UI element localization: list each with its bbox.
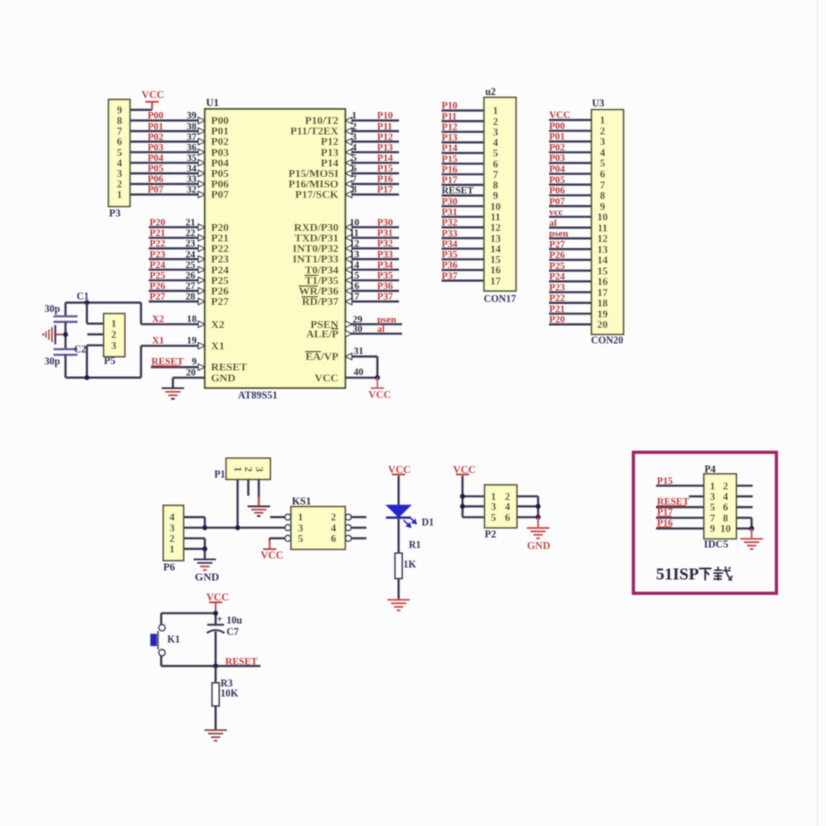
net label RESET (bottom): [225, 656, 258, 667]
power VCC at U1 pin40: [368, 378, 391, 401]
svg-text:P11: P11: [377, 121, 392, 132]
svg-text:P36: P36: [442, 260, 458, 271]
svg-text:4: 4: [169, 513, 175, 524]
svg-text:2: 2: [169, 534, 174, 545]
svg-text:P14: P14: [442, 143, 458, 154]
svg-text:3: 3: [600, 137, 605, 148]
IC U1 AT89S51 body: [205, 98, 345, 402]
svg-text:15: 15: [597, 266, 608, 277]
net label vcc (U3): [549, 207, 563, 218]
wire P2 pin3: [463, 505, 485, 507]
ground at P4: [740, 529, 762, 550]
wire U3 pin15 net P25: [549, 270, 592, 272]
svg-text:KS1: KS1: [292, 497, 311, 508]
wire P5 pin3: [87, 345, 104, 377]
ground at R1: [387, 600, 409, 611]
net label psen: [377, 314, 397, 325]
svg-text:8: 8: [352, 185, 357, 196]
net label P31: [377, 228, 393, 239]
svg-text:6: 6: [723, 503, 728, 514]
svg-text:2: 2: [111, 330, 116, 341]
net label P05 (U3): [549, 175, 565, 186]
svg-text:4: 4: [600, 148, 606, 159]
wire u2 pin11 net P31: [442, 216, 484, 218]
net label P27: [150, 292, 166, 303]
wire net X2: [141, 321, 205, 327]
wire net P01 (P3 to U1): [130, 128, 205, 134]
svg-text:P16: P16: [442, 165, 458, 176]
ground at P6: [194, 559, 220, 583]
net label P04 (U3): [549, 164, 565, 175]
svg-text:P1: P1: [214, 469, 225, 480]
svg-text:23: 23: [186, 239, 196, 250]
title 51ISP download: [656, 565, 732, 584]
svg-text:8: 8: [117, 116, 122, 127]
wire net X1: [141, 343, 205, 349]
svg-text:13: 13: [490, 234, 501, 245]
svg-text:34: 34: [187, 164, 197, 175]
net label P36 (u2): [442, 260, 458, 271]
wire P5 pin2 stub: [87, 333, 104, 335]
svg-text:17: 17: [597, 288, 608, 299]
net label P16: [377, 174, 393, 185]
svg-text:6: 6: [600, 170, 605, 181]
wire net P25 (to U1): [149, 277, 205, 283]
svg-text:16: 16: [490, 266, 501, 277]
pin number 21: [186, 217, 196, 228]
net label P20: [150, 217, 166, 228]
svg-text:P05: P05: [148, 164, 164, 175]
pin number 25: [186, 260, 196, 271]
svg-text:2: 2: [331, 513, 336, 524]
wire net P03 (P3 to U1): [130, 149, 205, 155]
svg-text:X1: X1: [211, 340, 224, 352]
wire u2 pin7 net P16: [442, 173, 484, 175]
svg-text:2: 2: [600, 127, 605, 138]
svg-text:P17: P17: [377, 185, 393, 196]
svg-text:P22: P22: [549, 293, 565, 304]
net label P07: [148, 185, 164, 196]
wire net P02 (P3 to U1): [130, 139, 205, 145]
svg-text:P25: P25: [549, 261, 565, 272]
net label P13 (u2): [442, 133, 458, 144]
wire to P5 pin1: [87, 303, 104, 324]
net label RESET (P4): [657, 497, 690, 508]
svg-text:10: 10: [490, 202, 501, 213]
pin number 36: [187, 142, 197, 153]
svg-text:P13: P13: [442, 133, 458, 144]
svg-text:P27: P27: [211, 296, 229, 308]
svg-text:10K: 10K: [221, 688, 239, 699]
pin number 3: [352, 132, 357, 143]
svg-text:16: 16: [350, 281, 360, 292]
wire net P07 (P3 to U1): [130, 191, 205, 197]
wire KS1 pin4: [351, 527, 366, 529]
svg-text:8: 8: [600, 191, 605, 202]
svg-text:6: 6: [352, 164, 357, 175]
wire KS1 pin1 stub: [270, 516, 285, 518]
net label P24: [150, 260, 166, 271]
wire P4 pin6: [736, 506, 752, 508]
svg-text:VCC: VCC: [368, 390, 391, 401]
wire P1 pin1 down: [237, 479, 239, 527]
junction C7 top: [213, 611, 218, 616]
net label RESET: [151, 357, 184, 368]
svg-text:P30: P30: [377, 217, 393, 228]
wire GND pin20: [173, 368, 205, 389]
svg-text:P02: P02: [549, 143, 565, 154]
wire U3 pin3 net P01: [549, 140, 592, 142]
svg-text:P4: P4: [705, 464, 716, 475]
pin number 6: [352, 164, 357, 175]
net label P35 (u2): [442, 250, 458, 261]
svg-text:1: 1: [352, 111, 357, 122]
svg-text:D1: D1: [422, 517, 434, 528]
power VCC at KS1: [261, 540, 284, 562]
net label P25: [150, 271, 166, 282]
net label P02: [148, 132, 164, 143]
svg-text:EA/VP: EA/VP: [306, 351, 339, 363]
wire u2 pin2 net P11: [442, 120, 484, 122]
net label P35: [377, 271, 393, 282]
svg-text:P2: P2: [485, 530, 497, 541]
svg-text:U1: U1: [206, 98, 219, 109]
svg-text:5: 5: [117, 148, 122, 159]
svg-text:P15: P15: [657, 476, 673, 487]
net label RESET (u2): [442, 186, 475, 197]
svg-text:10: 10: [597, 213, 608, 224]
junction P2 pin1: [460, 494, 465, 499]
wire net P36 (U1 right): [345, 288, 399, 294]
wire net P10 (U1 right): [345, 117, 399, 123]
capacitor C1: [45, 291, 89, 322]
wire U3 pin4 net P02: [549, 151, 592, 153]
wire u2 pin3 net P12: [442, 131, 484, 133]
wire P6 pin3 main net: [184, 527, 285, 529]
wire EA/VP pin31 to VCC: [345, 346, 377, 378]
svg-text:3: 3: [352, 132, 357, 143]
wire VCC pin40: [345, 367, 377, 378]
wire U3 pin1 net VCC: [549, 119, 592, 121]
svg-text:IDC5: IDC5: [704, 539, 729, 550]
svg-text:21: 21: [186, 217, 196, 228]
wire net P37 (U1 right): [345, 298, 399, 304]
wire u2 pin15 net P35: [442, 258, 484, 260]
wire U3 pin5 net P03: [549, 162, 592, 164]
wire U3 pin6 net P04: [549, 173, 592, 175]
wire P4 pin8 to ground: [736, 518, 751, 529]
capacitor C7 polarized: [207, 615, 243, 639]
svg-text:P30: P30: [442, 196, 458, 207]
wire net psen: [345, 321, 402, 327]
wire u2 pin4 net P13: [442, 141, 484, 143]
pin number 1: [352, 111, 357, 122]
pin number 17: [350, 292, 360, 303]
svg-text:P07: P07: [549, 196, 565, 207]
switch block KS1: [285, 497, 351, 550]
svg-text:P01: P01: [549, 132, 565, 143]
svg-text:P00: P00: [148, 111, 164, 122]
pin number 9: [192, 357, 197, 368]
wire net P00 (P3 to U1): [130, 117, 205, 123]
wire net P15 (U1 right): [345, 170, 399, 176]
svg-text:P6: P6: [163, 562, 175, 573]
svg-text:17: 17: [490, 276, 501, 287]
wire net P30 (U1 right): [345, 224, 399, 230]
svg-text:10: 10: [350, 217, 360, 228]
junction P6 pin2/pin1: [202, 546, 207, 551]
svg-text:P03: P03: [549, 153, 565, 164]
svg-text:3: 3: [491, 502, 496, 513]
net label P17: [377, 185, 393, 196]
svg-text:5: 5: [491, 513, 496, 524]
wire net P24 (to U1): [149, 267, 205, 273]
net label P34 (u2): [442, 239, 458, 250]
wire net P21 (to U1): [149, 235, 205, 241]
svg-text:36: 36: [187, 142, 197, 153]
svg-text:al: al: [377, 324, 385, 335]
net label P12 (u2): [442, 122, 458, 133]
svg-text:8: 8: [723, 513, 728, 524]
wire U3 pin9 net P07: [549, 205, 592, 207]
junction pin40/pin31: [375, 375, 380, 380]
wire P3 pin9 to VCC: [130, 109, 152, 111]
net label P07 (U3): [549, 196, 565, 207]
svg-text:17: 17: [350, 292, 360, 303]
svg-text:VCC: VCC: [142, 90, 165, 101]
pin number 22: [186, 228, 196, 239]
resistor R1: [395, 540, 421, 579]
net label P33: [377, 249, 393, 260]
wire net RESET (U1): [151, 364, 205, 370]
svg-text:C7: C7: [227, 627, 239, 638]
svg-text:6: 6: [331, 534, 336, 545]
junction P4 pin10/pin8: [749, 526, 754, 531]
net label P23 (U3): [549, 282, 565, 293]
svg-text:R1: R1: [409, 540, 421, 551]
svg-text:P17/SCK: P17/SCK: [295, 189, 339, 201]
svg-text:4: 4: [117, 158, 123, 169]
U1 left pin names: [211, 115, 248, 384]
svg-text:11: 11: [491, 213, 501, 224]
wire u2 pin10 net P30: [442, 205, 484, 207]
svg-text:CON17: CON17: [484, 294, 516, 305]
svg-text:20: 20: [186, 368, 196, 379]
svg-text:5: 5: [710, 503, 715, 514]
svg-text:P04: P04: [549, 164, 565, 175]
wire u2 pin14 net P34: [442, 248, 484, 250]
power VCC at D1: [388, 465, 411, 481]
svg-text:1: 1: [111, 319, 116, 330]
svg-text:vcc: vcc: [549, 207, 563, 218]
net label P27 (U3): [549, 239, 565, 250]
pin number 4: [352, 142, 357, 153]
wire P4 pin10: [736, 527, 751, 529]
capacitor C2: [45, 344, 87, 367]
net label X2: [152, 314, 164, 325]
pin number 10: [350, 217, 360, 228]
net label P04: [148, 153, 164, 164]
net label P05: [148, 164, 164, 175]
wire U3 pin18 net P22: [549, 302, 592, 304]
svg-text:5: 5: [600, 159, 605, 170]
pin number 28: [186, 292, 196, 303]
svg-text:4: 4: [352, 142, 357, 153]
svg-text:32: 32: [187, 185, 197, 196]
svg-text:P21: P21: [150, 228, 166, 239]
junction crystal top wire: [84, 300, 89, 305]
svg-text:9: 9: [710, 524, 715, 535]
net label P33 (u2): [442, 228, 458, 239]
pin number 2: [352, 121, 357, 132]
svg-text:4: 4: [505, 502, 511, 513]
svg-text:7: 7: [710, 513, 715, 524]
svg-text:51ISP: 51ISP: [656, 565, 699, 584]
wire net P33 (U1 right): [345, 256, 399, 262]
svg-text:P01: P01: [148, 121, 164, 132]
LED D1: [386, 505, 434, 528]
net label P11 (u2): [442, 111, 457, 122]
svg-text:P3: P3: [109, 209, 121, 220]
svg-text:P22: P22: [150, 239, 166, 250]
wire u2 pin13 net P33: [442, 237, 484, 239]
ground at U1 pin20: [162, 388, 184, 399]
pin number 7: [352, 174, 357, 185]
wire u2 pin16 net P36: [442, 269, 484, 271]
wire P4 pin3 stub: [689, 495, 704, 497]
svg-text:7: 7: [493, 170, 498, 181]
wire RESET to R3: [215, 666, 217, 683]
wire top of reset circuit: [161, 613, 215, 625]
svg-text:1: 1: [298, 513, 303, 524]
wire net P06 (P3 to U1): [130, 181, 205, 187]
svg-text:3: 3: [117, 169, 122, 180]
svg-text:7: 7: [600, 180, 605, 191]
wire net P23 (to U1): [149, 256, 205, 262]
svg-text:AT89S51: AT89S51: [238, 391, 277, 402]
net label P15 (u2): [442, 154, 458, 165]
net label P06 (U3): [549, 186, 565, 197]
connector P5 (crystal): [104, 314, 125, 368]
connector U3 CON20: [591, 99, 624, 347]
junction P1 pin1 on main net: [235, 525, 240, 530]
net label P14: [377, 153, 393, 164]
net label P01 (U3): [549, 132, 565, 143]
svg-text:psen: psen: [549, 229, 569, 240]
svg-text:P27: P27: [150, 292, 166, 303]
net label P23: [150, 249, 166, 260]
wire P6 pin2: [184, 538, 205, 549]
svg-text:P05: P05: [549, 175, 565, 186]
wire riser to X2: [140, 303, 142, 325]
svg-text:12: 12: [350, 239, 360, 250]
net label P14 (u2): [442, 143, 458, 154]
net label P20 (U3): [549, 315, 565, 326]
wire U3 pin7 net P05: [549, 184, 592, 186]
svg-text:27: 27: [186, 281, 196, 292]
svg-text:P33: P33: [442, 228, 458, 239]
svg-text:39: 39: [187, 111, 197, 122]
net label psen (U3): [549, 229, 569, 240]
net label P16: [657, 518, 673, 529]
svg-text:P5: P5: [104, 356, 116, 367]
pin number 38: [187, 121, 197, 132]
svg-text:GND: GND: [195, 571, 220, 583]
svg-text:30p: 30p: [45, 304, 61, 315]
svg-text:12: 12: [597, 234, 608, 245]
wire net P16 (U1 right): [345, 181, 399, 187]
wire U3 pin10 net vcc: [549, 216, 592, 218]
wire u2 pin5 net P14: [442, 152, 484, 154]
wire P6 pin1 to ground: [184, 549, 205, 560]
net label P15: [377, 164, 393, 175]
svg-text:9: 9: [192, 357, 197, 368]
svg-text:P20: P20: [150, 217, 166, 228]
svg-text:3: 3: [111, 341, 116, 352]
svg-text:14: 14: [490, 244, 501, 255]
svg-text:25: 25: [186, 260, 196, 271]
wire net P20 (to U1): [149, 224, 205, 230]
svg-text:X2: X2: [152, 314, 164, 325]
junction P6 pin4/pin3: [202, 525, 207, 530]
wire u2 pin9 net RESET: [442, 194, 484, 196]
wire net P14 (U1 right): [345, 160, 399, 166]
svg-text:4: 4: [723, 492, 729, 503]
svg-text:P35: P35: [442, 250, 458, 261]
svg-text:P37: P37: [442, 271, 458, 282]
wire P2 pin4: [517, 505, 538, 507]
pin number 16: [350, 281, 360, 292]
net label al: [377, 324, 385, 335]
svg-text:VCC: VCC: [261, 551, 284, 562]
pin number 39: [187, 111, 197, 122]
svg-text:P26: P26: [150, 281, 166, 292]
svg-text:7: 7: [117, 127, 122, 138]
svg-text:P12: P12: [442, 122, 458, 133]
svg-text:4: 4: [493, 138, 499, 149]
svg-text:u2: u2: [485, 87, 496, 98]
pin number 34: [187, 164, 197, 175]
wire KS1 pin5 to VCC: [270, 538, 285, 540]
svg-text:15: 15: [350, 271, 360, 282]
wire R3 to ground: [215, 706, 217, 730]
net label P25 (U3): [549, 261, 565, 272]
svg-text:RD/P37: RD/P37: [302, 296, 339, 308]
wire u2 pin1 net P10: [442, 109, 484, 111]
wire U3 pin8 net P06: [549, 194, 592, 196]
wire U3 pin14 net P26: [549, 259, 592, 261]
wire u2 pin17 net P37: [442, 280, 484, 282]
net label X1: [152, 335, 164, 346]
wire U3 pin12 net psen: [549, 237, 592, 239]
wire P4 pin5 net RESET: [656, 506, 704, 508]
connector P1: [214, 458, 270, 480]
svg-text:18: 18: [187, 314, 197, 325]
svg-text:GND: GND: [211, 372, 236, 384]
pin number 18: [187, 314, 197, 325]
svg-text:30: 30: [353, 324, 363, 335]
svg-text:C2: C2: [74, 344, 86, 355]
svg-text:P00: P00: [549, 121, 565, 132]
junction P2 pin3: [460, 504, 465, 509]
ground at crystal (rotated): [43, 325, 63, 344]
connector P3: [109, 100, 131, 220]
junction P2 pin6: [536, 515, 541, 520]
svg-text:P14: P14: [377, 153, 393, 164]
ground at P1: [248, 506, 270, 516]
net label al (U3): [549, 218, 557, 229]
svg-text:P32: P32: [377, 239, 393, 250]
